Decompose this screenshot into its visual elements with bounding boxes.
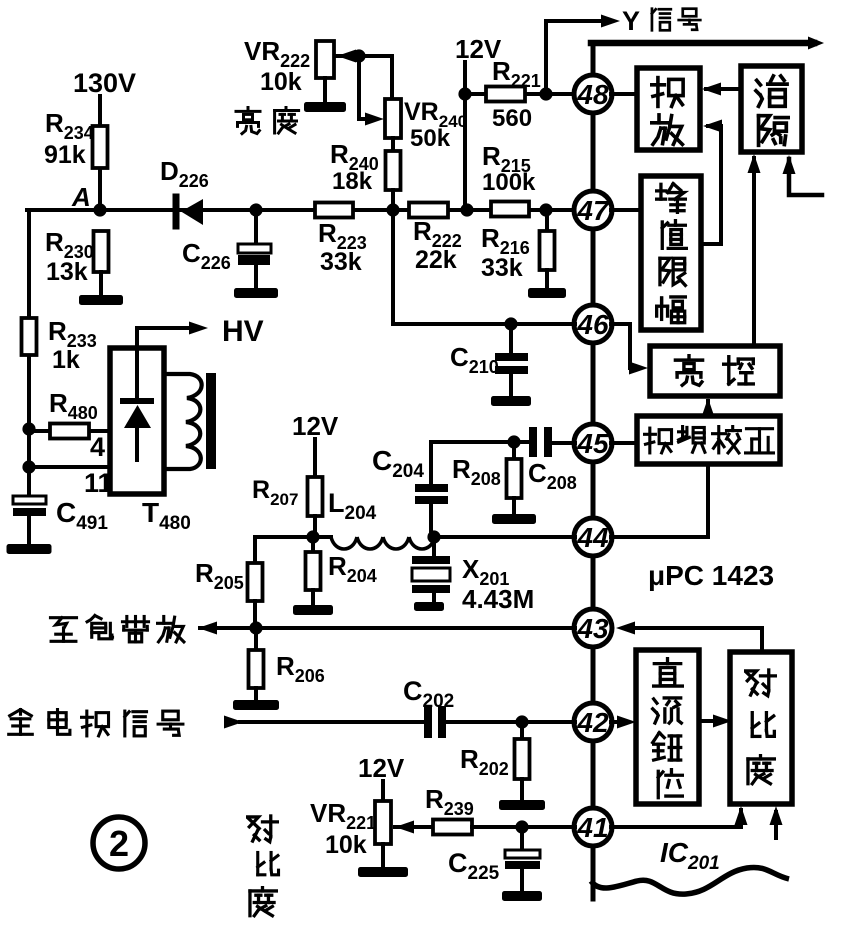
label R230 13k xyxy=(45,227,94,286)
label C210 xyxy=(450,342,499,377)
label R202 xyxy=(460,744,509,779)
wire left branch vertical xyxy=(27,210,31,497)
wire C204 vertical xyxy=(429,442,433,484)
crystal X201 xyxy=(412,556,450,603)
label brightness 亮度 xyxy=(236,108,299,134)
label 消隐 xyxy=(756,76,788,145)
node junction L204 right xyxy=(427,530,440,543)
wire 42 to dc-clamp xyxy=(611,716,636,729)
capacitor C210 xyxy=(495,353,528,396)
wire blanking to video-amp arrow xyxy=(702,83,741,96)
wire 48 to video-amp xyxy=(611,92,637,96)
svg-text:13k: 13k xyxy=(46,258,88,286)
svg-text:46: 46 xyxy=(576,309,609,340)
IC pin 47 xyxy=(574,191,612,229)
svg-text:μPC 1423: μPC 1423 xyxy=(648,560,774,591)
wire R205 to row43 xyxy=(253,601,257,628)
wire pin11 row xyxy=(29,465,111,469)
ground below X201 xyxy=(414,602,444,611)
svg-text:41: 41 xyxy=(576,812,608,843)
label 至色带放 xyxy=(50,616,183,642)
svg-text:2: 2 xyxy=(109,823,129,864)
node junction C210 xyxy=(504,317,517,330)
svg-text:10k: 10k xyxy=(260,68,302,96)
capacitor C208 xyxy=(529,427,575,457)
wire blanking bottom arrow left xyxy=(748,154,761,346)
wire row left of R207 xyxy=(255,535,331,539)
label C204 xyxy=(372,445,424,482)
svg-text:43: 43 xyxy=(576,613,609,644)
net 12V bottom xyxy=(358,753,405,783)
svg-text:560: 560 xyxy=(492,105,532,132)
page number 2 xyxy=(93,817,145,869)
block video amp 视放 xyxy=(637,68,700,150)
label 直流钳位 xyxy=(653,659,683,798)
wire bus 42-41 xyxy=(591,740,596,809)
wire VR222 wiper to VR240 top xyxy=(337,50,392,100)
label R480 xyxy=(49,388,98,423)
svg-text:42: 42 xyxy=(576,707,609,738)
net 12V mid xyxy=(292,411,339,441)
wire VR240 wiper arrow xyxy=(359,56,384,126)
svg-text:33k: 33k xyxy=(481,254,523,282)
wire R216 stem xyxy=(545,210,549,231)
label 峰值限幅 xyxy=(657,184,687,323)
wire R239 to 41 xyxy=(472,825,575,829)
ground below R206 xyxy=(233,700,279,710)
svg-text:22k: 22k xyxy=(415,246,457,274)
node junction R480 xyxy=(22,422,35,435)
wire 47 to peak-limiter xyxy=(611,208,641,212)
node junction R208 xyxy=(507,435,520,448)
wire R206 stem xyxy=(254,628,258,650)
block video correction 视频校正 xyxy=(637,416,780,464)
resistor R234 xyxy=(93,126,108,168)
wire R208 ground stem xyxy=(512,498,516,514)
node junction R202 xyxy=(515,715,528,728)
resistor R239 xyxy=(433,820,472,835)
svg-text:18k: 18k xyxy=(332,168,373,195)
wire R202 stem xyxy=(520,722,524,739)
wire chroma row xyxy=(198,622,575,635)
wire R204 stem xyxy=(311,537,315,552)
label R239 xyxy=(425,784,474,819)
resistor R206 xyxy=(249,650,264,688)
svg-text:100k: 100k xyxy=(482,169,536,196)
label C202 xyxy=(403,676,454,712)
svg-text:12V: 12V xyxy=(358,753,405,783)
block brightness control 亮控 xyxy=(650,346,780,396)
label pin 11 xyxy=(84,468,113,498)
label HV xyxy=(222,315,264,348)
wire 45 to video-corr xyxy=(611,441,637,445)
wire row into 44 xyxy=(434,535,575,539)
label contrast 对比度 vertical xyxy=(248,816,279,916)
label X201 4.43M xyxy=(462,554,534,614)
resistor R240 xyxy=(386,151,401,190)
capacitor C491 xyxy=(13,496,46,545)
ground below R230 xyxy=(79,295,123,305)
resistor R221 xyxy=(486,87,525,102)
ground below C226 xyxy=(234,288,278,298)
net 12V supply top xyxy=(455,34,502,64)
label R204 xyxy=(328,551,377,586)
svg-text:45: 45 xyxy=(576,428,609,459)
label R205 xyxy=(195,558,244,593)
svg-text:Y: Y xyxy=(622,6,640,36)
wire bus 46-45 xyxy=(591,342,596,425)
ground below C491 xyxy=(7,544,52,554)
resistor R230 xyxy=(94,231,109,272)
wire video-corr to brightness-control arrow xyxy=(702,398,715,417)
wire C210 stem xyxy=(509,324,513,354)
capacitor C225 xyxy=(505,850,540,891)
label R240 18k xyxy=(330,139,379,195)
ground below R216 xyxy=(528,288,566,298)
transformer T480 box xyxy=(110,348,164,494)
label R223 33k xyxy=(318,218,367,276)
svg-text:130V: 130V xyxy=(73,68,136,98)
wire IC boundary wave xyxy=(591,867,789,894)
resistor R222 xyxy=(409,203,448,218)
resistor R233 xyxy=(22,318,37,355)
svg-text:47: 47 xyxy=(576,195,610,226)
wire R202 ground stem xyxy=(520,779,524,800)
wire 130V to node A xyxy=(98,96,102,210)
IC pin 42 xyxy=(574,703,612,741)
wire video-in row xyxy=(224,716,425,729)
wire 12V to R207 xyxy=(313,439,317,477)
IC pin 45 xyxy=(574,424,612,462)
wire R216 to ground xyxy=(545,270,549,288)
label R221 560 xyxy=(492,56,541,132)
wire bus 47-46 xyxy=(591,228,596,306)
wire main horizontal row y210 xyxy=(27,208,575,212)
wire dc-clamp to contrast arrow xyxy=(699,715,732,728)
label IC201 xyxy=(660,837,720,874)
wire R480 row xyxy=(29,429,111,433)
svg-text:1k: 1k xyxy=(52,346,80,374)
wire R204 ground stem xyxy=(311,590,315,605)
ground below C225 xyxy=(502,891,542,901)
svg-text:10k: 10k xyxy=(325,831,367,859)
wire R221 row xyxy=(465,92,575,96)
wire VR221 ground stem xyxy=(381,844,385,867)
label R233 1k xyxy=(48,316,97,374)
block blanking 消隐 xyxy=(741,66,802,152)
potentiometer VR221 xyxy=(375,801,391,844)
ground below VR221 xyxy=(358,867,408,877)
potentiometer VR240 xyxy=(385,99,401,138)
wire row into 46 xyxy=(393,322,575,326)
wire R230 to ground xyxy=(99,272,103,296)
wire bus 45-44 xyxy=(591,461,596,519)
wire R207 to row xyxy=(313,516,317,537)
IC pin 48 xyxy=(574,75,612,113)
label uPC1423 xyxy=(648,560,774,591)
label R222 22k xyxy=(413,216,462,274)
node junction R206 xyxy=(249,621,262,634)
wire 44 to video-corr bottom xyxy=(611,464,708,537)
wire R205 corner xyxy=(253,537,257,563)
wire bus below 41 xyxy=(591,845,596,899)
resistor R223 xyxy=(315,203,353,218)
label C208 xyxy=(528,458,577,493)
svg-text:48: 48 xyxy=(576,79,609,110)
label VR221 10k xyxy=(310,798,376,859)
label R234 91k xyxy=(44,108,94,169)
svg-text:A: A xyxy=(71,182,91,212)
node junction L204 left xyxy=(306,530,319,543)
label D226 xyxy=(160,156,209,191)
wire VR221 wiper row xyxy=(395,821,433,834)
label R206 xyxy=(276,651,325,686)
ground below VR222 xyxy=(304,102,346,112)
wire bus 43-42 xyxy=(591,646,596,704)
wire Y signal out xyxy=(546,15,620,95)
wire C226 stem xyxy=(254,210,258,244)
transformer T480 core xyxy=(206,373,216,469)
svg-text:4.43M: 4.43M xyxy=(462,584,534,614)
node wiper junction xyxy=(352,49,365,62)
label R208 xyxy=(452,454,501,489)
IC pin 41 xyxy=(574,808,612,846)
node junction R222/R215 xyxy=(460,203,473,216)
svg-text:91k: 91k xyxy=(44,141,86,169)
net 130V supply label xyxy=(73,68,136,98)
wire R223 junction vertical xyxy=(386,203,399,324)
IC pin 44 xyxy=(574,518,612,556)
wire VR240 to R240 xyxy=(391,138,395,151)
resistor R480 xyxy=(50,424,89,439)
node A junction xyxy=(93,203,106,216)
wire thick top line xyxy=(591,37,824,50)
wire X201 stem xyxy=(432,537,436,557)
node A label xyxy=(71,182,91,212)
label C225 xyxy=(448,848,500,884)
wire R240 to row xyxy=(391,190,395,210)
label R216 33k xyxy=(481,223,530,282)
IC pin 43 xyxy=(574,609,612,647)
resistor R215 xyxy=(491,202,529,217)
capacitor C226 xyxy=(238,244,271,288)
block contrast 对比度 xyxy=(730,652,792,804)
node junction 12V/R221 xyxy=(458,87,471,100)
label 亮控 xyxy=(675,356,753,386)
label VR240 50k xyxy=(404,98,467,152)
wire peak-limiter feedback to video-amp xyxy=(701,120,722,245)
svg-text:4: 4 xyxy=(90,432,105,462)
node junction pin11 xyxy=(22,460,35,473)
wire 12V to VR221 xyxy=(381,781,385,801)
svg-text:HV: HV xyxy=(222,315,264,348)
label R207 xyxy=(252,476,298,509)
inductor L204 xyxy=(331,537,435,549)
resistor R207 xyxy=(308,477,323,516)
label C491 xyxy=(56,497,108,534)
ground below C210 xyxy=(491,396,531,406)
svg-text:12V: 12V xyxy=(292,411,339,441)
label pin 4 xyxy=(90,432,105,462)
node junction row/47 xyxy=(539,203,552,216)
label T480 xyxy=(142,497,191,534)
wire R206 ground stem xyxy=(254,688,258,700)
label C226 xyxy=(182,238,231,273)
potentiometer VR222 xyxy=(316,41,334,103)
wire 46 to brightness-control xyxy=(611,324,648,375)
wire C204 top run xyxy=(431,440,528,444)
IC pin 46 xyxy=(574,305,612,343)
wire contrast bottom arrow 2 xyxy=(770,806,783,838)
label 对比度 xyxy=(746,670,776,784)
wire 43 feedback from contrast xyxy=(616,622,762,653)
wire bus top stub xyxy=(591,43,596,76)
wire 41 to contrast bottom xyxy=(611,806,748,827)
capacitor C202 xyxy=(424,706,446,738)
ground below R208 xyxy=(492,514,536,524)
svg-text:33k: 33k xyxy=(320,248,362,276)
node junction C225 xyxy=(515,820,528,833)
wire HV out xyxy=(137,322,208,402)
svg-text:50k: 50k xyxy=(410,125,451,152)
resistor R216 xyxy=(540,231,555,270)
resistor R204 xyxy=(306,552,321,590)
diode D226 xyxy=(176,197,203,226)
diode inside T480 xyxy=(123,401,151,460)
label Y signal xyxy=(622,6,700,36)
ground below R204 xyxy=(293,605,333,615)
wire C225 stem xyxy=(520,827,524,851)
transformer T480 winding xyxy=(164,374,202,469)
label 视频校正 xyxy=(645,427,774,453)
wire 12V vertical xyxy=(463,62,467,210)
label 全电视信号 xyxy=(9,710,183,736)
capacitor C204 xyxy=(415,484,448,537)
label VR222 10k xyxy=(244,36,310,96)
label 视放 xyxy=(652,78,683,145)
wire blanking bottom arrow right xyxy=(783,155,823,195)
wire bus 48-47 xyxy=(591,112,596,192)
wire bus 44-43 xyxy=(591,555,596,610)
node junction R221/Y xyxy=(539,87,552,100)
wire C202 to 42 xyxy=(446,720,575,724)
resistor R208 xyxy=(507,459,522,498)
resistor R202 xyxy=(515,739,530,779)
resistor R205 xyxy=(248,563,263,601)
ground below R202 xyxy=(499,800,545,810)
block dc clamp 直流钳位 xyxy=(636,650,699,804)
block peak limiter 峰值限幅 xyxy=(641,176,701,330)
svg-text:44: 44 xyxy=(576,522,609,553)
wire R208 stem xyxy=(512,442,516,459)
label L204 xyxy=(328,488,377,524)
node junction at C226 xyxy=(249,203,262,216)
label R215 100k xyxy=(482,141,536,196)
